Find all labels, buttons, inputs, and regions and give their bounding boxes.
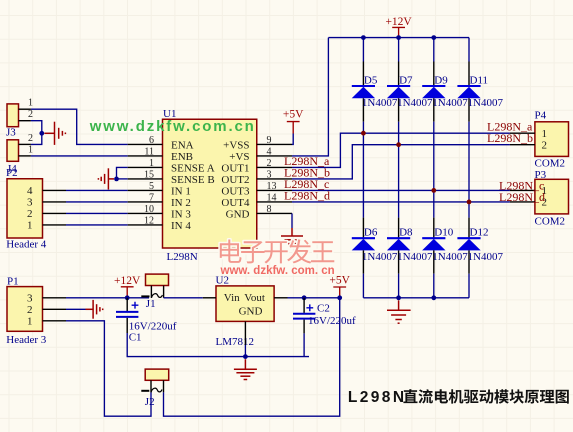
svg-text:+VS: +VS [229,151,249,163]
svg-text:1: 1 [28,98,33,109]
wire J4.1 to U1 ENB [31,155,128,157]
power +5V symbol at U2 output [329,275,350,298]
junction dot C2 tap [302,295,307,300]
power +12V symbol at rail [385,16,412,38]
svg-text:10: 10 [144,204,154,215]
wire C1 to ground line [127,333,245,357]
svg-text:4: 4 [27,185,33,197]
P1 pin 3 stub [43,297,67,299]
svg-text:D6: D6 [364,227,378,239]
wire U2 GND to ground line [244,345,246,357]
junction dot U2 GND on ground line [243,354,248,359]
svg-text:Vout: Vout [244,292,265,304]
P1 pin 1 stub [43,320,67,322]
J3 pin 2 [19,120,31,122]
wire D11 anode to net L298N_d row and D12 cathode [468,122,470,218]
svg-text:D11: D11 [470,74,489,86]
P1 pin 2 stub [43,308,67,310]
U1 pin 4 +VS [257,155,292,157]
svg-text:2: 2 [28,133,33,144]
svg-text:1N4007: 1N4007 [362,251,398,263]
U1 pin 7 IN 2 [128,201,163,203]
svg-text:1: 1 [28,144,33,155]
U1 pin 5 IN 1 [128,189,163,191]
svg-text:3: 3 [267,169,272,180]
U1 pin 2 OUT1 [257,166,292,168]
ground symbol (rotated) at J3/J4 [44,122,65,145]
svg-text:4: 4 [267,146,272,157]
svg-text:L298N: L298N [167,251,198,263]
svg-text:1: 1 [27,220,33,232]
connector J3 [7,104,19,127]
wire ground line U2 to C2 [245,356,309,358]
svg-text:+VSS: +VSS [223,139,249,151]
U1 pin 10 IN 3 [128,212,163,214]
capacitor C1 (polarized) [116,298,138,333]
U1 pin 3 OUT2 [257,178,292,180]
power +12V symbol at P1 [114,275,141,298]
svg-text:SENSE A: SENSE A [171,162,215,174]
svg-text:2: 2 [27,304,33,316]
U1 pin 6 ENA [128,143,163,145]
svg-text:COM2: COM2 [535,215,566,227]
wire P2.4 to U1 IN1 [66,189,128,191]
wire P1.1 to bottom +5V return via J2 [66,321,151,416]
svg-text:D12: D12 [470,227,489,239]
wire U1 +VS to +12V rail riser [292,38,328,156]
wire P1.3 to +12V node and J1 [66,297,149,299]
svg-text:7: 7 [149,192,154,203]
svg-text:1N4007: 1N4007 [397,251,433,263]
op-amp/driver IC U1 body [163,119,257,248]
svg-text:D5: D5 [364,74,378,86]
wire +12V top rail [328,37,469,39]
J4 pin 1 [19,155,31,157]
svg-text:ENB: ENB [171,151,193,163]
svg-text:IN 1: IN 1 [171,185,191,197]
capacitor C2 (polarized) [293,298,315,334]
svg-text:15: 15 [144,169,154,180]
svg-text:2: 2 [267,158,272,169]
J3 pin 1 [19,108,31,110]
U1 pin 15 SENSE B [128,178,163,180]
U1 pin 12 IN 4 [128,224,163,226]
ground symbol below diode rail [387,300,411,323]
svg-text:D7: D7 [399,74,413,86]
junction dot rail +12V column [396,35,401,40]
svg-text:Header 3: Header 3 [6,334,47,346]
connector P4 [535,122,569,157]
wire OUT1 to net L298N_a riser [292,133,510,167]
svg-text:16V/220uf: 16V/220uf [129,320,177,332]
U2 GND pin [244,321,246,345]
wire J1 to U2 Vin [164,297,203,299]
svg-text:IN 2: IN 2 [171,197,191,209]
svg-text:J2: J2 [145,396,155,408]
svg-text:1N4007: 1N4007 [432,251,468,263]
wire U1 SENSE B to ground [117,178,128,180]
svg-text:C2: C2 [317,303,330,315]
wire D6 anode to ground rail [362,274,364,298]
wire +12V rail to D11 cathode [468,38,470,62]
svg-text:P1: P1 [7,275,19,287]
junction dot ground rail at D10 [431,295,436,300]
svg-text:13: 13 [267,181,277,192]
ground symbol below U2 [234,359,257,379]
connector P2 Header 4 [7,179,43,238]
wire D12 anode to ground rail [468,274,470,298]
connector P1 Header 3 [7,287,43,332]
svg-text:5: 5 [149,181,154,192]
svg-text:1N4007: 1N4007 [432,97,468,109]
wire OUT2 to net L298N_b riser [292,145,510,179]
svg-text:2: 2 [28,109,33,120]
svg-text:3: 3 [27,292,33,304]
svg-text:16V/220uf: 16V/220uf [308,315,356,327]
svg-text:ENA: ENA [171,139,194,151]
junction dot net L298N_a on column [361,131,366,136]
wire P2.3 to U1 IN2 [66,201,128,203]
wire C2 to ground line [303,333,305,356]
title chinese characters [403,389,568,404]
svg-text:+12V: +12V [385,16,412,28]
diode D5 1N4007 (upper, cathode up) [352,62,375,122]
voltage regulator U2 body [216,286,274,322]
svg-text:D10: D10 [434,227,453,239]
svg-text:1N4007: 1N4007 [468,251,504,263]
P2 pin 4 stub [43,189,67,191]
junction dot +5V node [337,295,342,300]
svg-text:GND: GND [239,306,263,318]
svg-text:8: 8 [267,204,272,215]
svg-text:COM2: COM2 [535,157,566,169]
wire +5V node down and left to J2 [164,298,340,416]
wire J3.1 to U1 ENA [31,109,128,144]
svg-text:1N4007: 1N4007 [468,97,504,109]
junction dot net L298N_c on column [431,188,436,193]
svg-text:L298N: L298N [348,389,407,406]
junction dot rail D9 column [431,35,436,40]
diode D7 1N4007 (upper, cathode up) [387,62,410,122]
svg-text:1: 1 [149,158,154,169]
jumper J1 body [141,274,168,298]
wire P1.2 to ground [66,308,86,310]
svg-text:OUT1: OUT1 [221,162,249,174]
svg-text:P2: P2 [6,167,18,179]
junction dot J3 ground [39,131,44,136]
wire +12V rail to D7 cathode [398,38,400,62]
connector P3 [535,179,569,214]
wire +12V rail to D5 cathode [362,38,364,62]
ground symbol (rotated) at P1.2 [86,300,103,319]
svg-text:D9: D9 [434,74,448,86]
diode D12 1N4007 (lower, cathode up) [457,218,480,274]
U2 Vout pin [274,297,287,299]
svg-text:3: 3 [27,197,33,209]
svg-text:14: 14 [267,192,277,203]
wire U1 SENSE A branch to ground junction [117,167,128,179]
svg-text:6: 6 [149,135,154,146]
wire U1 GND pin 8 drop [291,213,293,228]
svg-text:OUT2: OUT2 [221,174,249,186]
wire diode ground rail [363,297,469,299]
wire +12V rail to D9 cathode [433,38,435,62]
P2 pin 2 stub [43,212,67,214]
wire P2.1 to U1 IN4 [66,224,128,226]
junction dot rail D5 column [361,35,366,40]
P4 pin 2 [510,144,535,146]
wire D7 anode to net L298N_b row and D8 cathode [398,122,400,218]
P3 pin 1 [510,189,535,191]
P2 pin 1 stub [43,224,67,226]
svg-text:Vin: Vin [224,292,240,304]
svg-text:www. dzkfw. com. cn: www. dzkfw. com. cn [220,265,335,277]
svg-text:OUT3: OUT3 [221,185,250,197]
svg-text:P4: P4 [535,109,547,121]
jumper J2 body [141,369,168,392]
wire D5 anode to net L298N_a row and D6 cathode [362,122,364,218]
svg-text:L298N_d: L298N_d [499,190,545,204]
U1 pin 8 GND [257,212,292,214]
svg-text:www.dzkfw.com.cn: www.dzkfw.com.cn [89,118,256,135]
svg-text:1: 1 [542,128,548,140]
svg-text:C1: C1 [129,332,142,344]
svg-text:1N4007: 1N4007 [397,97,433,109]
junction dot SENSE ground [114,177,119,182]
wire D10 anode to ground rail [433,274,435,298]
svg-text:LM7812: LM7812 [216,336,255,348]
junction dot net L298N_b on column [396,142,401,147]
svg-text:+5V: +5V [283,109,304,121]
svg-text:IN 4: IN 4 [171,220,191,232]
wire J3.2 down to ground junction and J4.2 [31,121,42,145]
svg-text:+12V: +12V [114,275,141,287]
svg-text:1: 1 [27,315,33,327]
svg-text:L298N_b: L298N_b [487,131,533,145]
svg-text:1N4007: 1N4007 [362,97,398,109]
U1 pin 9 +VSS [257,143,292,145]
svg-text:12: 12 [144,215,154,226]
J4 pin 2 [19,143,31,145]
P2 pin 3 stub [43,201,67,203]
U1 pin 14 OUT4 [257,201,292,203]
P3 pin 2 [510,201,535,203]
ground symbol (rotated) at SENSE pins [98,168,114,189]
svg-text:Header 4: Header 4 [6,238,47,250]
diode D8 1N4007 (lower, cathode up) [387,218,410,274]
svg-text:J3: J3 [6,126,16,138]
wire D8 anode to ground rail [398,274,400,298]
power +5V symbol at U1 pin 9 [283,109,304,145]
wire U2 Vout to +5V node [288,297,340,299]
connector J4 [7,140,19,162]
svg-text:D8: D8 [399,227,413,239]
diode D10 1N4007 (lower, cathode up) [422,218,445,274]
svg-text:11: 11 [144,146,154,157]
U2 Vin pin [203,297,216,299]
wire D9 anode to net L298N_c row and D10 cathode [433,122,435,218]
U1 pin 13 OUT3 [257,189,292,191]
wire P2.2 to U1 IN3 [66,212,128,214]
svg-text:OUT4: OUT4 [221,197,250,209]
svg-text:J1: J1 [146,298,156,310]
svg-text:SENSE B: SENSE B [171,174,215,186]
wire OUT3 net L298N_c to P3 [292,189,510,191]
svg-text:L298N_d: L298N_d [284,189,330,203]
wire OUT4 net L298N_d to P3 [292,201,510,203]
junction dot +12V / C1 [125,295,130,300]
junction dot net L298N_d on column [467,200,472,205]
diode D9 1N4007 (upper, cathode up) [422,62,445,122]
watermark pink brand characters [220,239,334,263]
svg-text:2: 2 [27,208,33,220]
junction dot ground rail at D8 [396,295,401,300]
U1 pin 11 ENB [128,155,163,157]
svg-text:IN 3: IN 3 [171,208,191,220]
U1 pin 1 SENSE A [128,166,163,168]
svg-text:GND: GND [226,208,250,220]
ground symbol below U1 [281,228,303,247]
diode D6 1N4007 (lower, cathode up) [352,218,375,274]
svg-text:9: 9 [267,135,272,146]
diode D11 1N4007 (upper, cathode up) [457,62,480,122]
P4 pin 1 [510,132,535,134]
svg-text:2: 2 [542,139,548,151]
